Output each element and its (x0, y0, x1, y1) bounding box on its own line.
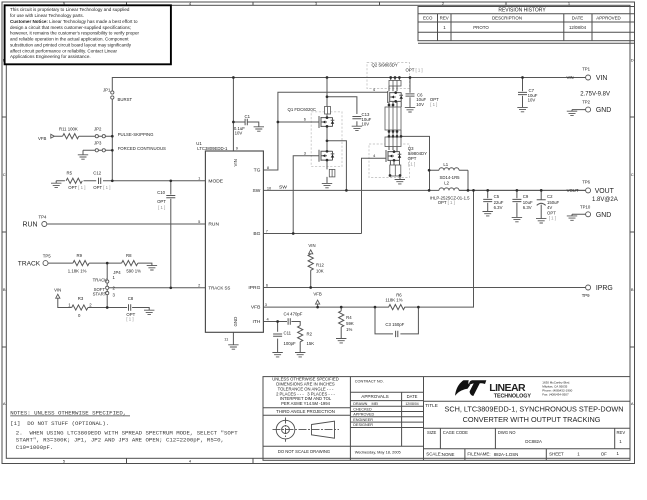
svg-text:12/08/04: 12/08/04 (569, 25, 587, 30)
svg-text:1: 1 (577, 452, 580, 457)
svg-text:DWG NO: DWG NO (498, 430, 516, 435)
svg-text:DESIGNER: DESIGNER (353, 423, 373, 427)
svg-text:JP3: JP3 (94, 141, 102, 146)
svg-text:for use with Linear Technology: for use with Linear Technology parts. (10, 13, 84, 18)
svg-text:TP5: TP5 (43, 254, 51, 259)
svg-text:OPT: OPT (157, 199, 166, 204)
svg-text:REV: REV (440, 15, 449, 20)
svg-text:[ 1 ]: [ 1 ] (430, 102, 437, 107)
svg-text:5: 5 (198, 219, 200, 224)
svg-text:VFB: VFB (38, 136, 46, 141)
svg-text:L1: L1 (443, 162, 448, 167)
svg-text:FILENAME:: FILENAME: (467, 452, 490, 457)
svg-text:10V: 10V (528, 98, 536, 103)
svg-text:Applications Engineering for a: Applications Engineering for assistance. (10, 54, 91, 59)
svg-text:C3 150pF: C3 150pF (385, 322, 404, 327)
svg-text:4: 4 (267, 316, 270, 321)
svg-text:DC882A: DC882A (525, 439, 542, 444)
svg-text:SHEET: SHEET (549, 452, 564, 457)
svg-text:6.3V: 6.3V (494, 205, 503, 210)
svg-text:GND: GND (596, 212, 611, 219)
svg-text:C12: C12 (93, 170, 101, 175)
svg-text:JP1: JP1 (103, 87, 111, 92)
svg-text:APPROVED: APPROVED (596, 15, 620, 20)
svg-text:3: 3 (265, 302, 267, 307)
svg-text:GND: GND (596, 107, 611, 114)
svg-text:L2: L2 (444, 180, 449, 185)
svg-text:VIN: VIN (54, 287, 61, 292)
svg-text:OPT [ 1 ]: OPT [ 1 ] (68, 185, 85, 190)
svg-text:1: 1 (617, 451, 620, 456)
svg-text:[ 1 ]: [ 1 ] (549, 216, 556, 221)
svg-text:IPRG: IPRG (596, 285, 613, 292)
svg-text:6: 6 (266, 282, 268, 287)
svg-text:ITH: ITH (253, 319, 261, 325)
svg-text:A: A (631, 401, 634, 406)
svg-text:C10: C10 (157, 190, 165, 195)
svg-text:4: 4 (189, 459, 192, 464)
svg-text:DATE: DATE (572, 15, 583, 20)
svg-text:C8: C8 (128, 296, 134, 301)
svg-text:Fax: (408)434-0507: Fax: (408)434-0507 (542, 393, 569, 397)
svg-text:TP6: TP6 (582, 180, 590, 185)
svg-text:10V: 10V (235, 131, 243, 136)
svg-text:2. WHEN USING LTC3809EDD WITH: 2. WHEN USING LTC3809EDD WITH SPREAD SPE… (16, 430, 238, 437)
svg-text:CONTRACT NO.: CONTRACT NO. (355, 379, 384, 383)
svg-text:R11 100K: R11 100K (59, 126, 78, 131)
svg-text:affect circuit performance or: affect circuit performance or reliabilit… (10, 48, 117, 53)
svg-text:100pF: 100pF (284, 341, 297, 346)
svg-text:VIN: VIN (596, 75, 608, 82)
svg-text:12/08/04: 12/08/04 (405, 402, 418, 406)
svg-text:Q1 FDC6020C: Q1 FDC6020C (288, 107, 316, 112)
svg-text:R12: R12 (316, 263, 324, 268)
svg-text:3: 3 (113, 292, 116, 297)
svg-text:C11: C11 (284, 331, 292, 336)
svg-text:TP2: TP2 (582, 99, 590, 104)
svg-text:C: C (3, 172, 6, 177)
svg-text:START", R3=300K; JP1, JP2 AND: START", R3=300K; JP1, JP2 AND JP3 ARE OP… (16, 437, 224, 444)
svg-text:9: 9 (236, 145, 238, 150)
svg-text:C2: C2 (547, 194, 553, 199)
svg-text:GND: GND (233, 317, 238, 327)
svg-text:and reliable operation in the: and reliable operation in the actual app… (10, 37, 129, 42)
svg-text:IPRG: IPRG (248, 285, 260, 291)
svg-text:substitution and printed circu: substitution and printed circuit board l… (10, 42, 132, 47)
svg-text:TECHNOLOGY: TECHNOLOGY (494, 394, 532, 400)
svg-text:R4: R4 (346, 315, 352, 320)
svg-text:1.8V@2A: 1.8V@2A (592, 197, 618, 203)
svg-text:VOUT: VOUT (595, 188, 615, 195)
svg-text:1: 1 (443, 25, 446, 30)
svg-text:10K: 10K (316, 269, 324, 274)
svg-text:design a circuit that meets cu: design a circuit that meets customer-sup… (10, 25, 131, 30)
svg-text:APPROVALS: APPROVALS (361, 394, 389, 399)
svg-text:however, it remains the custom: however, it remains the customer's respo… (10, 31, 139, 36)
svg-text:10: 10 (267, 185, 272, 190)
svg-text:MODE: MODE (208, 178, 223, 184)
svg-text:BG: BG (253, 231, 260, 237)
svg-text:[ 1 ]: [ 1 ] (408, 161, 415, 166)
svg-text:TP1: TP1 (582, 67, 590, 72)
svg-text:R2: R2 (307, 332, 313, 337)
svg-text:RUN: RUN (23, 221, 38, 228)
svg-text:[1] DO NOT STUFF (OPTIONAL).: [1] DO NOT STUFF (OPTIONAL). (10, 420, 109, 427)
svg-text:B: B (3, 287, 6, 292)
svg-text:REV: REV (617, 430, 626, 435)
svg-text:CAGE CODE: CAGE CODE (443, 430, 468, 435)
svg-text:[ 1 ]: [ 1 ] (126, 317, 133, 322)
svg-text:R3: R3 (78, 296, 84, 301)
svg-text:C1: C1 (245, 114, 251, 119)
svg-text:FORCED CONTINUOUS: FORCED CONTINUOUS (118, 146, 166, 151)
svg-text:VOUT: VOUT (567, 188, 579, 193)
svg-text:C4 470pF: C4 470pF (284, 312, 303, 317)
svg-text:11: 11 (224, 337, 228, 342)
svg-text:REVISION HISTORY: REVISION HISTORY (498, 8, 546, 14)
svg-text:1: 1 (68, 302, 71, 307)
svg-text:PULSE-SKIPPING: PULSE-SKIPPING (118, 132, 154, 137)
svg-text:TP9: TP9 (582, 293, 590, 298)
svg-text:2: 2 (89, 302, 92, 307)
svg-text:590 1%: 590 1% (126, 269, 141, 274)
svg-text:8: 8 (267, 165, 269, 170)
svg-text:DESCRIPTION: DESCRIPTION (492, 15, 522, 20)
svg-text:OPT: OPT (408, 156, 417, 161)
svg-text:2.75V-9.8V: 2.75V-9.8V (580, 92, 610, 98)
svg-text:R9: R9 (77, 253, 83, 258)
svg-text:LINEAR: LINEAR (489, 382, 526, 394)
svg-text:DRAWN MEI: DRAWN MEI (353, 402, 378, 406)
svg-text:C5: C5 (494, 194, 500, 199)
svg-text:TITLE: TITLE (425, 403, 438, 408)
svg-text:ECO: ECO (423, 15, 433, 20)
svg-text:Customer Notice: Linear Techno: Customer Notice: Linear Technology has m… (10, 19, 138, 24)
svg-text:A: A (3, 401, 6, 406)
svg-text:PER ASME Y14.5M -1994: PER ASME Y14.5M -1994 (281, 401, 330, 406)
svg-text:DO NOT SCALE DRAWING: DO NOT SCALE DRAWING (278, 449, 330, 454)
svg-text:TP10: TP10 (580, 205, 591, 210)
svg-text:PROTO: PROTO (473, 25, 489, 30)
svg-text:NOTES: UNLESS OTHERWISE SPECIF: NOTES: UNLESS OTHERWISE SPECIFIED, (10, 409, 126, 416)
svg-text:CONVERTER WITH OUTPUT TRACKING: CONVERTER WITH OUTPUT TRACKING (463, 415, 601, 424)
svg-text:3: 3 (304, 150, 306, 155)
svg-text:6: 6 (304, 117, 306, 122)
svg-text:TRACK SS: TRACK SS (208, 285, 230, 290)
svg-text:SCALE:: SCALE: (426, 452, 442, 457)
svg-text:5: 5 (63, 459, 66, 464)
svg-text:150uF: 150uF (547, 200, 560, 205)
svg-text:R8: R8 (126, 253, 132, 258)
svg-text:TRACK: TRACK (18, 260, 41, 267)
svg-text:ENGINEER: ENGINEER (353, 418, 373, 422)
svg-text:[ 1 ]: [ 1 ] (158, 205, 165, 210)
svg-text:OPT [ 1 ]: OPT [ 1 ] (438, 200, 455, 205)
svg-text:2: 2 (198, 283, 200, 288)
svg-text:B: B (631, 287, 634, 292)
svg-text:SD14-1R5: SD14-1R5 (440, 175, 461, 180)
svg-text:TP4: TP4 (39, 215, 47, 220)
svg-text:THIRD ANGLE PROJECTION: THIRD ANGLE PROJECTION (276, 409, 335, 414)
svg-text:TRACK: TRACK (93, 277, 108, 282)
svg-text:OPT [ 1 ]: OPT [ 1 ] (406, 68, 423, 73)
svg-text:10V: 10V (362, 122, 370, 127)
svg-text:DATE: DATE (407, 394, 418, 399)
svg-text:LTC3809EDD-1: LTC3809EDD-1 (197, 146, 228, 151)
svg-text:SW: SW (253, 188, 261, 194)
svg-text:C: C (631, 172, 634, 177)
svg-text:4V: 4V (547, 205, 552, 210)
svg-text:NONE: NONE (442, 452, 455, 457)
svg-text:6.3V: 6.3V (523, 205, 532, 210)
svg-text:4: 4 (373, 153, 376, 158)
svg-text:1%: 1% (346, 327, 352, 332)
svg-text:R5: R5 (67, 170, 73, 175)
svg-text:VIN: VIN (233, 159, 238, 166)
svg-text:BURST: BURST (118, 97, 133, 102)
svg-text:TG: TG (254, 168, 261, 174)
svg-text:VIN: VIN (567, 75, 574, 80)
svg-text:JP2: JP2 (94, 126, 102, 131)
svg-text:882A-1.DSN: 882A-1.DSN (494, 452, 519, 457)
svg-text:START: START (93, 291, 107, 296)
svg-text:This circuit is proprietary to: This circuit is proprietary to Linear Te… (10, 7, 130, 12)
svg-text:D: D (631, 58, 634, 63)
svg-text:1: 1 (619, 439, 622, 444)
svg-text:SW: SW (279, 185, 287, 191)
svg-text:Wednesday, May 18, 2005: Wednesday, May 18, 2005 (355, 449, 401, 454)
svg-text:SCH, LTC3809EDD-1, SYNCHRONOUS: SCH, LTC3809EDD-1, SYNCHRONOUS STEP-DOWN (444, 404, 623, 413)
svg-text:15K: 15K (307, 341, 315, 346)
svg-text:4: 4 (373, 87, 376, 92)
svg-text:118K 1%: 118K 1% (385, 297, 402, 302)
svg-text:SIZE: SIZE (427, 430, 437, 435)
svg-text:1: 1 (113, 275, 116, 280)
svg-text:APPROVED: APPROVED (353, 413, 374, 417)
svg-text:OPT [ 1 ]: OPT [ 1 ] (93, 185, 110, 190)
svg-text:VIN: VIN (308, 243, 315, 248)
svg-text:C10=1000pF.: C10=1000pF. (16, 444, 54, 451)
svg-text:C9: C9 (523, 194, 529, 199)
svg-text:RUN: RUN (208, 222, 219, 228)
svg-text:1: 1 (198, 176, 200, 181)
svg-text:VFB: VFB (251, 305, 261, 311)
svg-text:10V: 10V (416, 102, 424, 107)
svg-text:CHECKED: CHECKED (353, 407, 372, 411)
svg-text:VFB: VFB (313, 292, 321, 297)
svg-text:0: 0 (78, 313, 81, 318)
svg-text:Q2 Si9803DY: Q2 Si9803DY (372, 63, 398, 68)
svg-text:OF: OF (601, 452, 607, 457)
svg-text:59K: 59K (346, 321, 354, 326)
svg-text:7: 7 (266, 228, 268, 233)
svg-text:1.18K 1%: 1.18K 1% (68, 269, 87, 274)
